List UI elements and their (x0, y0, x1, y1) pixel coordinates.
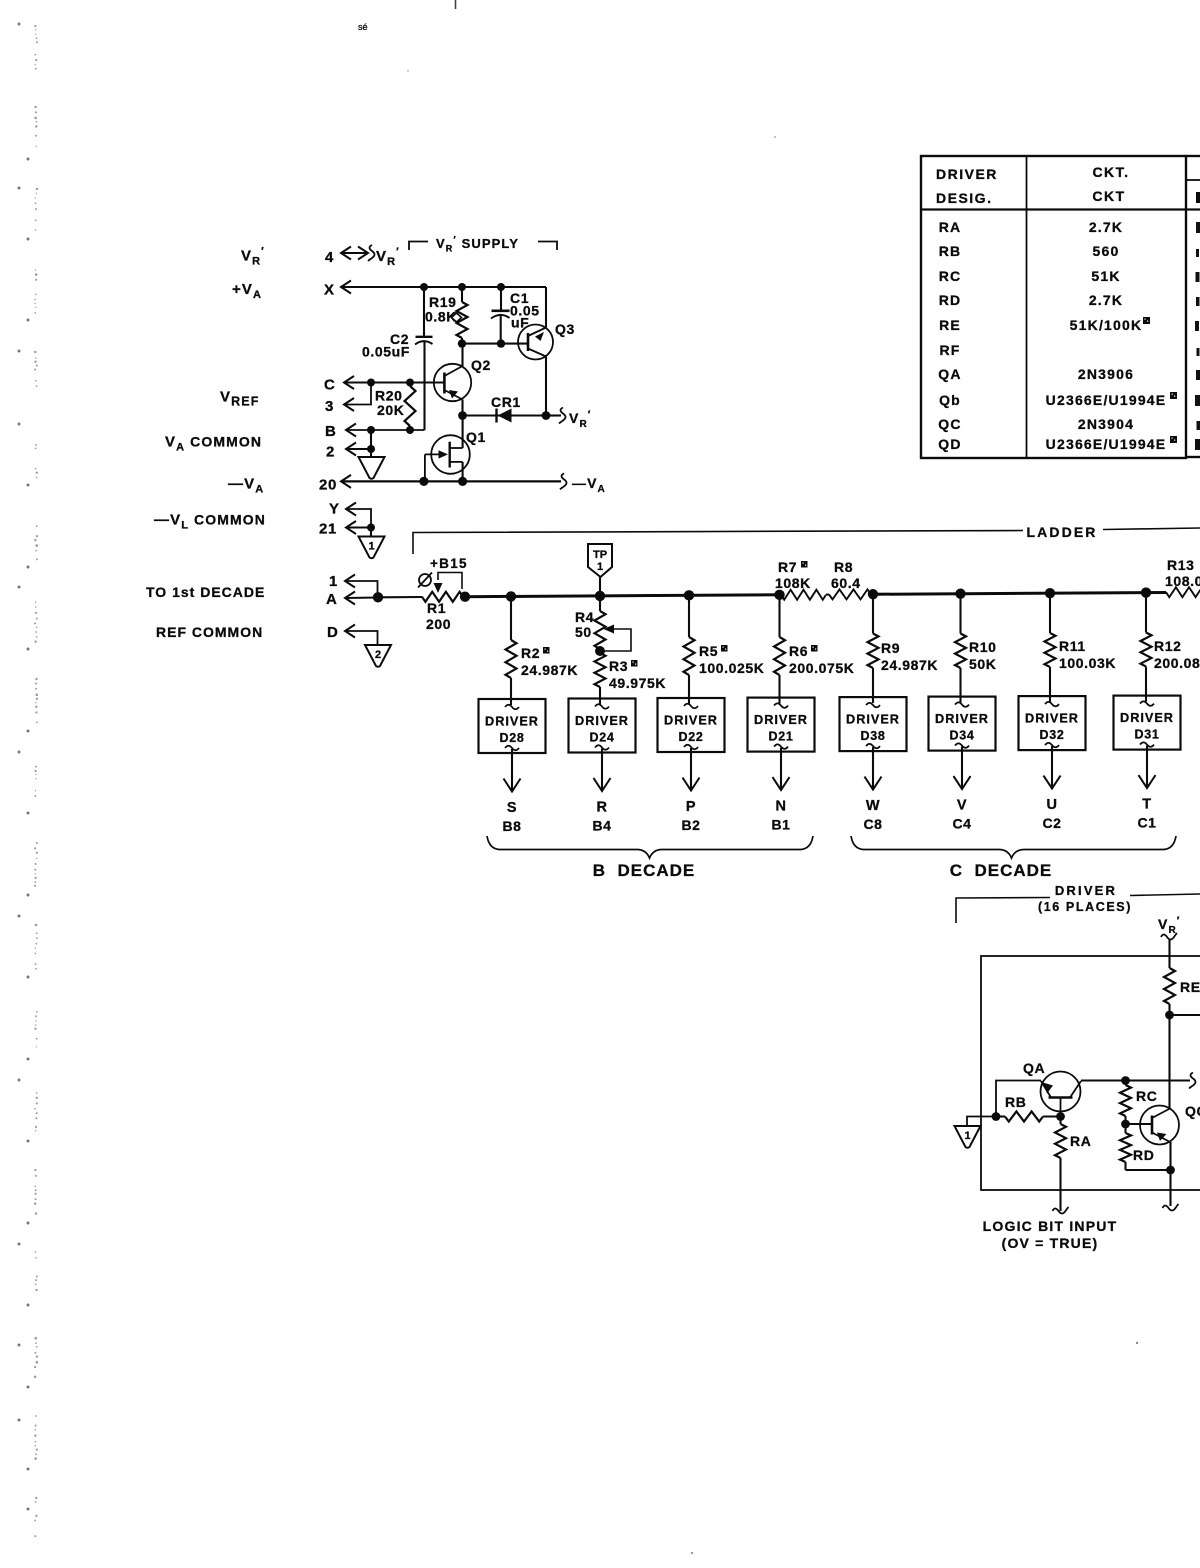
svg-text:DRIVER: DRIVER (936, 166, 998, 182)
svg-text:Q2: Q2 (471, 357, 491, 373)
potentiometer R1 200 (378, 573, 463, 633)
svg-text:QC: QC (1185, 1103, 1200, 1119)
output arrow R B4 (592, 749, 611, 834)
svg-text:C DECADE: C DECADE (950, 861, 1053, 880)
resistor R2 24.987K (506, 596, 579, 705)
svg-text:200.08: 200.08 (1154, 655, 1200, 671)
driver box D34 (929, 697, 996, 751)
wire input to triangle 1 (967, 1117, 996, 1127)
svg-text:D31: D31 (1134, 728, 1159, 742)
svg-text:2N3904: 2N3904 (1078, 416, 1134, 432)
resistor RA (1055, 1117, 1091, 1159)
output arrow S B8 (502, 749, 521, 834)
svg-text:R8: R8 (834, 559, 853, 575)
capacitor C2 0.05uF (362, 287, 433, 430)
svg-text:2.7K: 2.7K (1089, 219, 1123, 235)
table column divider (1026, 156, 1028, 457)
VR prime stub right (546, 408, 592, 431)
wire RD to QC emitter node (1126, 1169, 1171, 1171)
svg-text:X: X (324, 282, 335, 299)
node CR1 junctions (458, 411, 550, 420)
svg-text:U2366E/U1994E: U2366E/U1994E (1046, 392, 1167, 408)
svg-text:3: 3 (325, 398, 334, 415)
node R1 right (460, 592, 470, 602)
svg-text:W: W (866, 798, 880, 814)
svg-text:B8: B8 (502, 818, 521, 834)
svg-text:TO 1st DECADE: TO 1st DECADE (146, 584, 265, 600)
driver detail box (981, 956, 1200, 1190)
output arrow P B2 (681, 748, 700, 833)
svg-text:B DECADE: B DECADE (593, 861, 696, 880)
svg-text:CKT: CKT (1092, 188, 1125, 204)
svg-text:R12: R12 (1154, 638, 1181, 654)
svg-text:LADDER: LADDER (1027, 524, 1098, 540)
svg-text:QD: QD (938, 436, 961, 452)
svg-text:24.987K: 24.987K (521, 662, 578, 678)
svg-text:DRIVER: DRIVER (1120, 711, 1174, 725)
svg-text:DESIG.: DESIG. (936, 190, 992, 206)
svg-text:RE: RE (939, 317, 961, 333)
svg-text:200: 200 (426, 616, 451, 632)
brace C decade (851, 836, 1176, 858)
svg-text:R6: R6 (789, 643, 808, 659)
resistor R7 108K (775, 559, 826, 600)
svg-text:D28: D28 (499, 731, 524, 745)
table row RE 51K/100K (939, 317, 1199, 333)
wire QA collector rail (1081, 1073, 1196, 1089)
table header CKT. CKT (1092, 164, 1129, 204)
svg-text:LOGIC BIT INPUT: LOGIC BIT INPUT (983, 1218, 1118, 1234)
wire 2 to ground (346, 430, 375, 457)
svg-text:T: T (1142, 797, 1151, 813)
ladder main rail (465, 593, 1166, 597)
svg-text:0.05uF: 0.05uF (362, 344, 410, 360)
svg-text:50K: 50K (969, 656, 996, 672)
VR prime SUPPLY header bracket (409, 235, 557, 254)
resistor R6 200.075K (774, 595, 855, 704)
svg-text:DRIVER: DRIVER (935, 712, 989, 726)
svg-text:S: S (507, 800, 517, 816)
driver box D32 (1019, 696, 1086, 750)
svg-text:R7: R7 (778, 559, 797, 575)
svg-text:21: 21 (319, 521, 337, 538)
svg-text:+B15: +B15 (430, 556, 468, 571)
wire RE node down to QC collector (1168, 1015, 1170, 1108)
svg-text:RF: RF (939, 342, 960, 358)
svg-text:4: 4 (325, 249, 334, 266)
driver box D22 (658, 698, 725, 752)
table row RB 560 (939, 243, 1199, 259)
svg-text:C8: C8 (863, 816, 882, 832)
transistor QC (1140, 1103, 1200, 1145)
svg-text:Q1: Q1 (466, 429, 486, 445)
wire 21 to ground triangle 1 (346, 521, 375, 537)
svg-text:DRIVER: DRIVER (1055, 883, 1117, 898)
potentiometer R4 50 (575, 596, 631, 651)
svg-text:DRIVER: DRIVER (575, 714, 629, 728)
ladder rail junctions (506, 587, 1151, 601)
wire pin D to ground triangle 2 (345, 625, 378, 646)
svg-text:R9: R9 (881, 640, 900, 656)
node RE bottom (1165, 1011, 1200, 1020)
svg-text:V: V (957, 798, 967, 814)
svg-text:C1: C1 (1137, 815, 1156, 831)
svg-text:RD: RD (939, 292, 962, 308)
driver box D31 (1114, 696, 1181, 750)
ladder bracket + LADDER label (413, 524, 1200, 554)
svg-text:B4: B4 (592, 818, 611, 834)
transistor Q3 (518, 321, 575, 360)
stray specks (1136, 1342, 1138, 1344)
svg-text:C4: C4 (952, 816, 971, 832)
wire Q3 emitter down to VR prime line (545, 357, 547, 416)
svg-text:49.975K: 49.975K (609, 675, 666, 691)
output arrow T C1 (1137, 746, 1156, 831)
node QA collector / RC top (1121, 1076, 1130, 1085)
wire Q1 drain up to CR1 line (462, 416, 464, 449)
svg-text:CKT.: CKT. (1092, 164, 1129, 180)
svg-text:100.03K: 100.03K (1059, 655, 1116, 671)
svg-text:R10: R10 (969, 639, 996, 655)
table border (921, 156, 1200, 458)
transistor QA (1023, 1060, 1081, 1117)
driver box D24 (569, 699, 636, 753)
wire Q1 source down to -VA line (462, 462, 464, 482)
table row QD U2366E/U1994E (938, 436, 1200, 452)
resistor R9 24.987K (868, 594, 939, 703)
driver box D28 (479, 699, 546, 753)
svg-text:R: R (596, 800, 607, 816)
svg-text:2.7K: 2.7K (1089, 292, 1123, 308)
wire C to Q2 base (344, 376, 444, 389)
svg-text:QC: QC (938, 416, 961, 432)
resistor R10 50K (955, 594, 996, 703)
label DRIVER (16 PLACES) (1038, 883, 1132, 914)
resistor R11 100.03K (1045, 593, 1117, 702)
table row Qb U2366E/U1994E (939, 392, 1200, 408)
svg-text:RA: RA (939, 219, 962, 235)
table row RA 2.7K (939, 219, 1200, 235)
wire Q2 collector up to R19 node (461, 344, 463, 366)
svg-text:R5: R5 (699, 643, 718, 659)
svg-text:1: 1 (964, 1130, 970, 1142)
svg-text:RA: RA (1070, 1133, 1091, 1149)
svg-text:U2366E/U1994E: U2366E/U1994E (1046, 436, 1167, 452)
svg-text:D22: D22 (678, 730, 703, 744)
svg-text:RB: RB (939, 243, 962, 259)
svg-text:108.0: 108.0 (1165, 573, 1200, 589)
svg-text:108K: 108K (775, 575, 811, 591)
resistor RE (1164, 968, 1200, 1015)
svg-text:2: 2 (326, 444, 335, 461)
svg-text:1: 1 (368, 541, 374, 553)
svg-text:D: D (327, 624, 338, 641)
svg-text:D38: D38 (860, 729, 885, 743)
svg-text:C: C (324, 377, 335, 394)
svg-text:R13: R13 (1167, 557, 1194, 573)
svg-text:20K: 20K (377, 402, 404, 418)
resistor R20 20K (375, 383, 416, 431)
wire pin A / node A (345, 592, 383, 605)
pin 4 double arrow to VR prime (341, 245, 400, 268)
wire Q1 gate to -VA line (424, 454, 426, 481)
svg-text:D32: D32 (1039, 728, 1064, 742)
svg-text:RB: RB (1005, 1094, 1026, 1110)
svg-text:R11: R11 (1059, 638, 1086, 654)
wire 3 joins C line (344, 383, 371, 412)
wire pin 1 to node A (345, 575, 378, 598)
node QC emitter (1166, 1166, 1175, 1175)
ground triangle (VA common) (359, 457, 385, 479)
transistor Q2 (434, 357, 491, 401)
svg-text:DRIVER: DRIVER (1025, 712, 1079, 726)
svg-text:Y: Y (329, 501, 340, 518)
driver box D21 (748, 698, 815, 752)
svg-text:U: U (1046, 797, 1057, 813)
svg-text:D21: D21 (768, 730, 793, 744)
svg-text:TP: TP (593, 549, 607, 561)
resistor RB (996, 1094, 1061, 1122)
resistor R19 0.8K (425, 287, 468, 344)
table row RF (blank) (939, 342, 1199, 358)
node RB left (992, 1112, 1001, 1121)
svg-text:B2: B2 (681, 817, 700, 833)
table row QA 2N3906 (938, 366, 1200, 382)
svg-text:RC: RC (1136, 1088, 1157, 1104)
node R19/C1/Q3-base rail (458, 339, 528, 347)
resistor R12 200.08 (clipped) (1141, 593, 1200, 702)
table row RD 2.7K (939, 292, 1200, 308)
svg-text:DRIVER: DRIVER (754, 713, 808, 727)
svg-text:RE: RE (1180, 979, 1200, 995)
output arrow W C8 (863, 747, 882, 832)
wire Q2 emitter down to CR1 line (461, 400, 463, 416)
svg-text:R3: R3 (609, 658, 628, 674)
svg-text:(OV = TRUE): (OV = TRUE) (1002, 1235, 1099, 1251)
svg-text:QA: QA (1023, 1060, 1045, 1076)
svg-text:Qb: Qb (939, 392, 961, 408)
node R4/R3 junction (595, 646, 605, 656)
svg-text:60.4: 60.4 (831, 575, 861, 591)
svg-text:20: 20 (319, 477, 337, 494)
output arrow N B1 (771, 748, 790, 833)
table header DRIVER DESIG. (936, 166, 998, 206)
svg-text:200.075K: 200.075K (789, 660, 855, 676)
node top rail junctions (420, 283, 505, 291)
table row QC 2N3904 (938, 416, 1200, 432)
svg-text:100.025K: 100.025K (699, 660, 765, 676)
svg-text:2N3906: 2N3906 (1078, 366, 1134, 382)
resistor R5 100.025K (684, 595, 765, 704)
svg-text:N: N (775, 799, 786, 815)
driver box D38 (840, 697, 907, 751)
svg-text:B1: B1 (771, 817, 790, 833)
svg-text:R4: R4 (575, 609, 594, 625)
wire RA to logic bit input (1053, 1158, 1069, 1214)
ground triangle 2 (ref common) (365, 645, 391, 667)
wire QA emitter to input node (996, 1081, 1041, 1117)
test point TP1 (588, 544, 612, 596)
svg-text:RC: RC (939, 268, 962, 284)
table clipped third column header mark (1196, 192, 1200, 203)
svg-text:R1: R1 (427, 600, 446, 616)
svg-text:1: 1 (329, 573, 338, 590)
svg-text:QA: QA (938, 366, 961, 382)
svg-text:DRIVER: DRIVER (485, 715, 539, 729)
svg-text:DRIVER: DRIVER (846, 713, 900, 727)
svg-text:A: A (326, 591, 337, 608)
transistor Q1 (425, 429, 486, 474)
wire -VA line (341, 473, 606, 495)
diode CR1 (463, 394, 547, 423)
output arrow V C4 (952, 747, 971, 832)
svg-text:50: 50 (575, 624, 592, 640)
top edge tick (455, 0, 457, 9)
svg-text:560: 560 (1093, 243, 1120, 259)
svg-text:uF: uF (511, 315, 529, 331)
svg-text:D34: D34 (949, 729, 974, 743)
VR prime continuation squiggle (1161, 933, 1177, 968)
svg-text:P: P (686, 799, 696, 815)
resistor R8 60.4 (826, 559, 871, 599)
svg-text:D24: D24 (589, 731, 614, 745)
svg-text:REF COMMON: REF COMMON (156, 624, 263, 640)
output arrow U C2 (1042, 746, 1061, 831)
svg-text:1: 1 (597, 561, 603, 573)
svg-text:24.987K: 24.987K (881, 657, 938, 673)
wire B line to C2 (346, 424, 425, 437)
svg-text:(16 PLACES): (16 PLACES) (1038, 900, 1132, 914)
wire Y joins 21 (346, 503, 371, 528)
ground triangle 1 (VL common) (359, 537, 385, 559)
svg-text:51K/100K: 51K/100K (1070, 317, 1143, 333)
svg-text:B: B (325, 423, 336, 440)
resistor R3 49.975K (595, 649, 667, 705)
scan specks left margin (18, 23, 39, 1538)
wire Q3 collector to top rail (545, 287, 547, 328)
svg-text:R2: R2 (521, 645, 540, 661)
screw adjust symbol (418, 573, 432, 588)
resistor R13 108.0 (clipped) (1165, 557, 1200, 597)
svg-text:CR1: CR1 (491, 394, 521, 410)
svg-text:Q3: Q3 (555, 321, 575, 337)
svg-text:51K: 51K (1091, 268, 1120, 284)
wire X / +VA top rail (341, 281, 546, 294)
resistor RC (1120, 1081, 1157, 1125)
bracket lines around DRIVER label (956, 894, 1200, 923)
svg-text:sé: sé (358, 22, 368, 32)
svg-text:2: 2 (375, 649, 381, 661)
svg-text:DRIVER: DRIVER (664, 714, 718, 728)
node RB right / QA base (1056, 1112, 1065, 1121)
capacitor C1 0.05uF (491, 287, 540, 344)
node RC bottom / QC base (1121, 1120, 1152, 1129)
svg-text:RD: RD (1133, 1147, 1154, 1163)
input triangle 1 (955, 1126, 981, 1148)
wire QC emitter down (1163, 1142, 1179, 1211)
svg-text:C2: C2 (1042, 815, 1061, 831)
table row RC 51K (939, 268, 1200, 284)
resistor RD (1120, 1124, 1154, 1170)
brace B decade (487, 836, 813, 858)
